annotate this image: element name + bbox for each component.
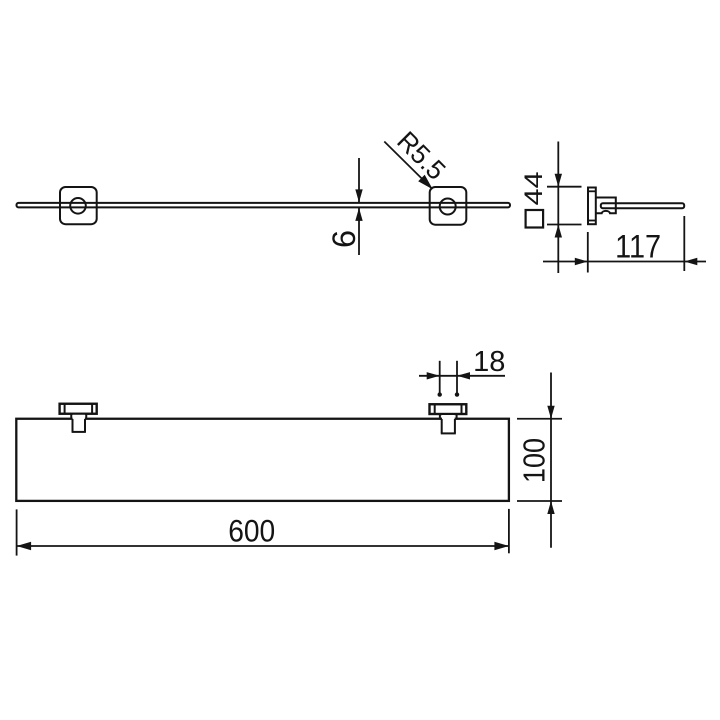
dimension 600: left arrow pointing left	[17, 542, 32, 550]
left bracket screw circle	[70, 198, 86, 214]
dimension 117: right arrow pointing left	[684, 258, 697, 265]
dimension 100: bottom arrow pointing up	[547, 501, 554, 514]
wall plate top edge line	[588, 190, 596, 192]
dimension 600: right extension line	[508, 509, 510, 553]
dimension 600: left extension line	[16, 509, 18, 555]
dimension 44: bottom extension tick	[547, 224, 582, 226]
dimension 100: bottom extension line	[517, 500, 562, 502]
svg-text:18: 18	[473, 346, 505, 378]
dimension 100: dimension line	[550, 373, 552, 548]
glass shelf (side view)	[601, 203, 684, 208]
svg-text:100: 100	[518, 438, 552, 483]
square section symbol	[526, 210, 544, 228]
right bracket bar end lines	[434, 404, 436, 414]
right bracket stem mask	[442, 415, 455, 432]
right wall bracket (front view, rounded square)	[430, 187, 467, 225]
dimension 117: left extension line	[587, 232, 589, 273]
left bracket stem mask	[73, 415, 85, 432]
wall plate bottom edge line	[588, 220, 596, 222]
left bracket bar end lines	[64, 404, 66, 414]
left bracket wall bar (top view)	[60, 404, 97, 414]
dimension 600: dimension line	[17, 545, 509, 547]
dimension 18: right extension line with dot	[456, 361, 458, 394]
right bracket wall bar (top view)	[430, 404, 467, 414]
dimension 100: top arrow pointing down	[547, 406, 554, 419]
dimension 6: vertical dimension line	[358, 158, 360, 202]
right bracket stem outline	[439, 414, 441, 420]
left bracket stem outline	[70, 414, 72, 420]
dimension 117: dimension line	[543, 261, 706, 263]
right bracket screw circle	[440, 199, 456, 215]
svg-text:117: 117	[615, 229, 661, 265]
dimension 117: left arrow pointing right	[575, 258, 588, 265]
glass shelf slab (front view)	[17, 203, 511, 208]
dimension 6: lower arrow (points up to shelf bottom)	[355, 208, 362, 221]
dimension 44: vertical dimension line	[557, 142, 559, 274]
dimension 100: top extension line	[517, 418, 562, 420]
dimension 18: left arrow pointing right	[427, 372, 440, 379]
leader R5.5 arrowhead	[418, 175, 433, 190]
left wall bracket (front view, rounded square)	[60, 187, 97, 224]
dimension 600: right arrow pointing right	[494, 542, 509, 550]
glass shelf outline (top view)	[16, 419, 509, 501]
svg-text:600: 600	[228, 512, 275, 548]
dimension 18: left extension line with dot	[439, 361, 441, 394]
leader line R5.5	[384, 142, 431, 189]
dimension 6: upper arrow (points down to shelf top)	[355, 189, 362, 202]
dimension 18: right arrow pointing left	[457, 372, 470, 379]
dimension 44: top extension tick	[547, 186, 582, 188]
dimension 44: upper arrow pointing down	[555, 174, 562, 187]
svg-text:44: 44	[520, 171, 548, 205]
wall plate (side view)	[588, 188, 596, 225]
svg-text:6: 6	[326, 230, 362, 248]
shelf holder clamp (side view)	[596, 198, 616, 214]
dimension 117: right extension line	[683, 216, 685, 271]
dimension 44: lower arrow pointing up	[555, 225, 562, 238]
dimension 18: dimension line	[419, 375, 505, 377]
